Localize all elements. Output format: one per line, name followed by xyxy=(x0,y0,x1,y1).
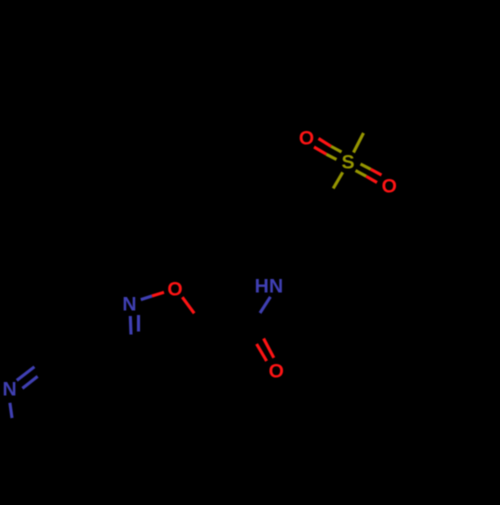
svg-text:N: N xyxy=(3,379,17,401)
svg-text:N: N xyxy=(122,294,136,316)
isoxazole O1 label xyxy=(167,278,182,300)
svg-text:N: N xyxy=(269,275,283,297)
carbonyl C=O double bond main line (red half) xyxy=(264,339,274,358)
S=O3 upper line red half xyxy=(371,169,382,175)
isoxazole N2-O1 bond blue half xyxy=(141,296,152,300)
S-CH3 bond (olive half) xyxy=(354,133,364,153)
svg-text:H: H xyxy=(255,275,269,297)
S=O2 upper line olive half xyxy=(331,146,342,152)
sulfonyl O2 label upper-left xyxy=(299,127,314,149)
svg-text:O: O xyxy=(167,278,182,300)
sulfonyl O3 label lower-right xyxy=(382,176,397,198)
isoxazole N2 label xyxy=(122,294,136,316)
isoxazole N2=C3 double bond inner line (blue half) xyxy=(137,315,140,332)
isoxazole N2=C3 double bond main line (blue half) xyxy=(129,316,133,335)
carbonyl C=O double bond outer line (red half) xyxy=(257,344,267,361)
pyridine N1 label xyxy=(3,379,17,401)
isoxazole O1-C5 bond (red half) xyxy=(182,297,194,313)
pyridine N1=C2 double bond outer line (blue half) xyxy=(17,367,35,381)
svg-text:O: O xyxy=(382,176,397,198)
svg-text:O: O xyxy=(299,127,314,149)
S=O3 lower line olive half xyxy=(356,171,367,177)
svg-text:S: S xyxy=(341,152,354,174)
amide HN label xyxy=(255,275,284,297)
S=O3 upper line olive half xyxy=(361,164,371,169)
sulfonyl S label xyxy=(341,152,354,174)
S=O3 lower line red half xyxy=(366,176,377,182)
S=O2 lower line olive half xyxy=(326,154,336,159)
svg-text:O: O xyxy=(269,360,284,382)
carbonyl O label xyxy=(269,360,284,382)
pyridine N1-C6 bond (blue half) xyxy=(10,403,12,418)
amide N-C(=O) bond (blue half) xyxy=(260,297,270,313)
isoxazole N2-O1 bond red half xyxy=(152,292,164,296)
pyridine N1=C2 double bond inner line (blue half) xyxy=(22,376,37,388)
S=O2 lower line red half xyxy=(314,147,326,154)
S-CH2 bond (olive half) xyxy=(333,172,343,188)
S=O2 upper line red half xyxy=(319,139,332,147)
